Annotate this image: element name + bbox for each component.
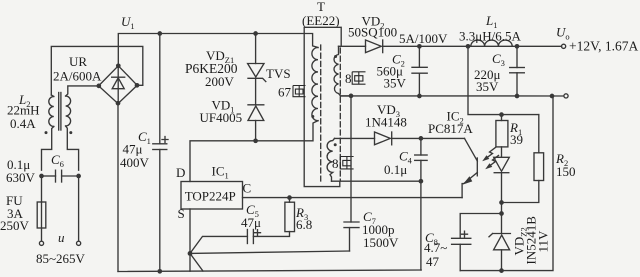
- node dot C6 right: [76, 174, 81, 179]
- node dot R1 top: [499, 112, 504, 117]
- svg-text:1500V: 1500V: [363, 235, 399, 250]
- svg-text:630V: 630V: [6, 170, 36, 185]
- resistor R3: [285, 198, 312, 232]
- node dot clamp: [253, 138, 258, 143]
- node dot VDZ2 bottom: [499, 268, 504, 273]
- svg-text:400V: 400V: [120, 155, 150, 170]
- node dot C2 bottom: [417, 94, 422, 99]
- svg-text:8: 8: [345, 71, 352, 86]
- terminal: AC input left: [39, 241, 43, 245]
- svg-text:200V: 200V: [205, 74, 235, 89]
- node U1 label: [121, 14, 135, 31]
- svg-text:47μ: 47μ: [241, 215, 261, 230]
- node dot C4 bottom: [419, 179, 424, 184]
- node dot return right: [550, 94, 555, 99]
- LED inside optocoupler: [494, 157, 510, 213]
- svg-text:1N4148: 1N4148: [365, 115, 407, 130]
- label turns glyph (za) for secondary: [352, 72, 365, 84]
- node dot R3 top: [287, 195, 292, 200]
- svg-text:8: 8: [332, 156, 339, 171]
- svg-text:6.8: 6.8: [296, 217, 312, 232]
- svg-text:67: 67: [278, 85, 292, 100]
- svg-text:2A/600A: 2A/600A: [53, 69, 102, 84]
- label turns glyph (za) for bias winding: [340, 157, 353, 169]
- capacitor C1: [120, 34, 168, 272]
- node dot L1 left tap: [466, 44, 471, 49]
- label AC input u 85~265V: [36, 230, 86, 266]
- wire: drain node (primary bottom to IC1 D): [190, 121, 318, 182]
- fuse FU: [0, 193, 46, 241]
- svg-text:4.7~: 4.7~: [424, 240, 447, 255]
- label output Uo: [556, 25, 638, 54]
- phase dot L2 left: [45, 131, 48, 134]
- optocoupler IC2 PC817A: [421, 109, 477, 198]
- svg-text:S: S: [178, 206, 185, 221]
- node dot C6 left: [39, 174, 44, 179]
- wire: fan S to C5: [190, 236, 247, 253]
- wire: secondary ground rail: [460, 96, 553, 271]
- svg-text:39: 39: [510, 132, 523, 147]
- svg-text:85~265V: 85~265V: [36, 251, 86, 266]
- capacitor C7: [344, 96, 399, 251]
- node dot bridge left: [96, 84, 101, 89]
- node dot bridge right: [135, 83, 140, 88]
- svg-text:+12V, 1.67A: +12V, 1.67A: [569, 39, 638, 54]
- node dot LED cathode lower: [499, 211, 504, 216]
- svg-text:35V: 35V: [384, 76, 407, 91]
- svg-text:(EE22): (EE22): [302, 13, 340, 28]
- wire: top DC rail U1 from bridge to primary: [118, 34, 318, 66]
- wire: C pin to optocoupler emitter: [243, 197, 463, 199]
- svg-text:35V: 35V: [476, 79, 499, 94]
- node dot C4 top: [419, 136, 424, 141]
- svg-text:UR: UR: [69, 54, 87, 69]
- inductor L1: [459, 13, 521, 46]
- capacitor C8: [424, 214, 502, 271]
- terminal: output negative: [564, 94, 568, 98]
- node dot VDZ1 top: [253, 31, 258, 36]
- wire: secondary return rail: [341, 95, 564, 97]
- resistor R2: [502, 115, 576, 203]
- phase dot bias: [334, 143, 337, 146]
- svg-text:D: D: [176, 165, 185, 180]
- diode VD3 1N4148: [335, 102, 421, 145]
- wire: fan S diagonal to ground rail: [190, 253, 203, 271]
- svg-text:TOP224P: TOP224P: [185, 188, 236, 203]
- node dot C1 bottom: [157, 269, 162, 274]
- phase dot secondary: [334, 55, 337, 58]
- resistor R1: [496, 115, 523, 158]
- terminal: output positive: [562, 44, 566, 48]
- wire: choke left to bridge right vertex: [51, 46, 143, 95]
- diode VD2 50SQ100: [339, 14, 562, 53]
- node dot bridge top: [116, 63, 121, 68]
- svg-text:UF4005: UF4005: [200, 110, 243, 125]
- capacitor C3: [474, 46, 524, 96]
- svg-text:u: u: [58, 230, 65, 245]
- node dot C3 bottom: [515, 94, 520, 99]
- svg-text:TVS: TVS: [266, 66, 291, 81]
- rectifier bridge UR: [53, 54, 137, 104]
- svg-text:50SQ100: 50SQ100: [348, 25, 397, 40]
- svg-text:250V: 250V: [0, 218, 30, 233]
- inductor L2 common-mode choke: [7, 92, 79, 170]
- diode VD1 UF4005: [200, 78, 264, 141]
- svg-text:3.3μH/6.5A: 3.3μH/6.5A: [459, 29, 521, 44]
- svg-text:11V: 11V: [536, 230, 551, 253]
- light arrows from LED to phototransistor: [482, 148, 498, 170]
- transformer bias winding 8 turns: [327, 138, 338, 181]
- wire: feedback tap from output: [468, 46, 539, 114]
- IC1 TOP224P: [176, 164, 251, 222]
- capacitor C2: [377, 46, 428, 96]
- wire: bridge bottom to ground rail: [117, 104, 119, 272]
- wire: fan S to C7 return: [190, 251, 350, 253]
- node dot C1 top: [157, 31, 162, 36]
- transformer core dashed lines: [321, 45, 341, 181]
- transformer T EE22: [302, 0, 340, 28]
- TVS diode VDZ1 P6KE200: [185, 34, 291, 90]
- terminal: AC input right: [77, 241, 81, 245]
- node dot C3 top: [515, 44, 520, 49]
- svg-text:PC817A: PC817A: [428, 121, 473, 136]
- svg-text:C: C: [243, 181, 252, 196]
- node dot LED cathode upper: [499, 200, 504, 205]
- svg-text:0.4A: 0.4A: [10, 116, 36, 131]
- capacitor C6: [6, 152, 79, 185]
- phase dot L2 right: [69, 131, 72, 134]
- svg-text:150: 150: [556, 164, 576, 179]
- wire: left input column: [42, 176, 79, 241]
- wire: bridge left vertex to choke right winding: [66, 86, 99, 96]
- wire: transformer outer loop (secondary top to bias bottom): [304, 27, 341, 186]
- node dot C7 top: [349, 94, 354, 99]
- svg-text:T: T: [317, 0, 325, 14]
- wire: S pin to star ground junction: [189, 209, 191, 271]
- transformer secondary winding 8 turns: [334, 46, 351, 96]
- wire: bias winding return: [332, 181, 421, 270]
- zener diode VDZ2 1N5241B: [489, 214, 551, 271]
- phase dot primary: [311, 115, 314, 118]
- svg-text:47: 47: [426, 254, 440, 269]
- svg-text:5A/100V: 5A/100V: [399, 31, 448, 46]
- wire: primary ground bottom rail: [118, 270, 421, 272]
- capacitor C4: [384, 138, 427, 181]
- node dot S junction: [188, 251, 193, 256]
- transformer primary winding 67 turns: [278, 48, 318, 121]
- label turns glyph (za) for primary: [293, 86, 306, 97]
- node dot C2 top: [417, 44, 422, 49]
- svg-text:0.1μ: 0.1μ: [384, 162, 407, 177]
- capacitor C5: [241, 202, 290, 244]
- node dot bridge bottom: [116, 101, 121, 106]
